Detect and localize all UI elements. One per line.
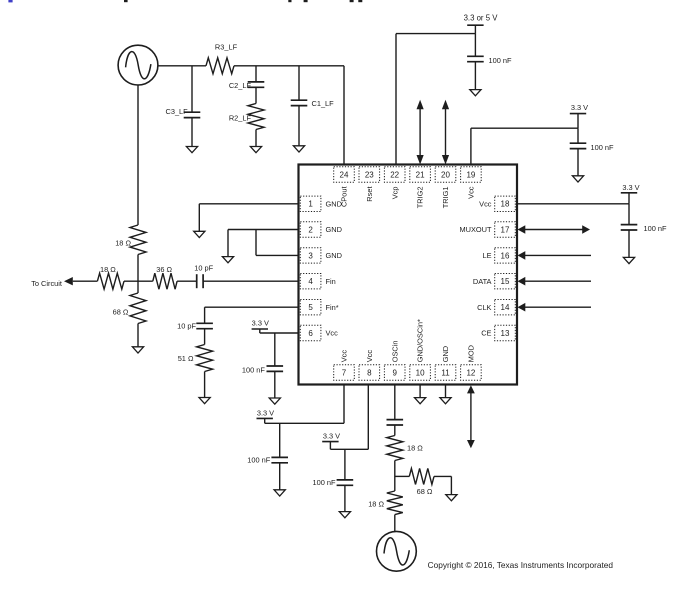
label 18 ohm R9: [407, 444, 423, 453]
pin 4 box: [300, 274, 321, 289]
ground of C10: [339, 512, 350, 518]
svg-text:C3_LF: C3_LF: [166, 107, 189, 116]
resistor R5 18 ohm: [97, 273, 124, 289]
pin 21 name TRIG2: [416, 187, 425, 209]
ground of C5: [572, 176, 583, 182]
svg-text:18 Ω: 18 Ω: [407, 444, 423, 453]
svg-text:1: 1: [308, 200, 313, 209]
ground of pin 1: [194, 231, 205, 237]
pin 18 name Vcc: [479, 199, 492, 208]
pin 19 name Vcc: [467, 186, 476, 199]
wire C10 stem: [344, 449, 346, 480]
svg-text:36 Ω: 36 Ω: [156, 265, 172, 274]
arrow MOD pin 12: [467, 385, 475, 448]
svg-text:Rset: Rset: [365, 187, 374, 202]
svg-text:18 Ω: 18 Ω: [115, 238, 131, 247]
ground of pin 2: [222, 257, 233, 263]
svg-text:68 Ω: 68 Ω: [113, 308, 129, 317]
svg-text:12: 12: [466, 368, 475, 377]
svg-text:3.3 V: 3.3 V: [622, 183, 639, 192]
svg-text:18: 18: [501, 200, 510, 209]
svg-text:DATA: DATA: [473, 277, 492, 286]
label 18 ohm R4: [115, 238, 131, 247]
svg-text:14: 14: [501, 303, 510, 312]
svg-text:15: 15: [501, 277, 510, 286]
pin 20 box: [435, 167, 456, 182]
svg-text:C1_LF: C1_LF: [312, 99, 335, 108]
svg-text:3.3 V: 3.3 V: [252, 318, 269, 327]
pin 4 name Fin: [326, 277, 336, 286]
pin 6 box: [300, 325, 321, 340]
svg-text:Vcp: Vcp: [390, 187, 399, 200]
svg-text:3.3 V: 3.3 V: [257, 409, 274, 418]
svg-text:51 Ω: 51 Ω: [178, 354, 194, 363]
label 68 ohm R10: [417, 487, 433, 496]
svg-text:10 pF: 10 pF: [194, 264, 213, 273]
pin 23 box: [359, 167, 380, 182]
svg-text:OSCin: OSCin: [390, 341, 399, 363]
pin 1 box: [300, 196, 321, 211]
wire C2_LF stem: [255, 66, 257, 82]
label 100 nF C10: [312, 478, 335, 487]
svg-text:3: 3: [308, 251, 313, 260]
wire pin 19 Vcc right: [471, 127, 578, 129]
pin 11 name GND: [441, 346, 450, 362]
ground of R10: [446, 495, 457, 501]
resistor R7 68 ohm: [130, 281, 146, 323]
capacitor C4 100 nF: [467, 56, 484, 61]
pin 5 name Fin*: [326, 303, 339, 312]
signal source V1 (VCO): [118, 45, 158, 85]
capacitor C10 100 nF: [337, 480, 354, 485]
svg-text:21: 21: [416, 170, 425, 179]
svg-text:GND: GND: [326, 225, 342, 234]
svg-text:TRIG2: TRIG2: [416, 187, 425, 209]
svg-text:GND: GND: [326, 251, 342, 260]
svg-text:Vcc: Vcc: [340, 350, 349, 363]
pin 15 name DATA: [473, 277, 492, 286]
pin 16 name LE: [482, 251, 491, 260]
pin 2 box: [300, 222, 321, 237]
capacitor C6 10 pF: [197, 274, 203, 288]
pin 15 box: [495, 274, 516, 289]
label 10 pF C7: [177, 321, 196, 330]
ground of R8: [199, 398, 210, 404]
wire Vcp supply stub: [474, 25, 476, 33]
wire C1_LF stem: [298, 66, 300, 100]
svg-text:LE: LE: [482, 251, 491, 260]
label R3_LF: [215, 43, 238, 52]
svg-text:100 nF: 100 nF: [489, 56, 512, 65]
svg-text:13: 13: [501, 329, 510, 338]
pin 21 box: [410, 167, 431, 182]
label R2_LF: [229, 114, 252, 123]
ground of pin 10: [415, 398, 426, 404]
arrow MUXOUT pin 17: [518, 225, 591, 234]
wire pin 1 GND: [199, 204, 298, 232]
wire rail to pin19 node: [577, 114, 579, 129]
wire pin 18 Vcc: [517, 203, 629, 205]
pin 17 box: [495, 222, 516, 237]
label 100 nF C5: [591, 143, 614, 152]
svg-text:CLK: CLK: [477, 303, 491, 312]
capacitor C1_LF: [291, 100, 308, 105]
pin 7 name Vcc: [340, 350, 349, 363]
wire R9 to junction: [394, 461, 396, 492]
label C1_LF: [312, 99, 335, 108]
svg-text:R3_LF: R3_LF: [215, 43, 238, 52]
pin 22 name Vcp: [390, 187, 399, 200]
capacitor C5 100 nF: [570, 143, 587, 148]
wire pin 10 GND: [419, 385, 421, 398]
pin 13 name CE: [481, 329, 491, 338]
svg-text:Vcc: Vcc: [326, 329, 339, 338]
capacitor C3_LF: [184, 112, 201, 117]
wire C5 stem: [577, 128, 579, 143]
capacitor C9 100 nF: [271, 457, 288, 462]
wire C5 to ground: [577, 149, 579, 176]
label 100 nF C9: [247, 456, 270, 465]
supply rail 3.3 V (pin 18): [621, 183, 640, 193]
svg-text:10 pF: 10 pF: [177, 321, 196, 330]
pin 23 name Rset: [365, 187, 374, 202]
wire pin 2 GND: [228, 230, 299, 257]
wire arrow to R5: [73, 280, 98, 282]
caption fragment (clipped figure title): [8, 0, 362, 2]
wire C3_LF stem: [191, 66, 193, 112]
wire C9 stem: [279, 423, 281, 457]
supply rail 3.3 or 5 V: [464, 13, 499, 25]
wire C10 to ground: [344, 485, 346, 511]
wire C4 to ground: [474, 62, 476, 90]
wire rail stub pin 7: [264, 418, 266, 423]
wire R2_LF to ground: [255, 130, 257, 147]
pin 8 box: [359, 365, 380, 380]
svg-text:C2_LF: C2_LF: [229, 81, 252, 90]
svg-text:22: 22: [390, 170, 399, 179]
wire R10 to ground: [434, 476, 451, 494]
label 100 nF C8: [242, 365, 265, 374]
wire rail stub pin 18: [628, 193, 630, 204]
wire C2_LF to R2_LF: [255, 87, 257, 103]
arrow CLK pin 14: [518, 303, 592, 312]
svg-text:11: 11: [441, 368, 450, 377]
label C2_LF: [229, 81, 252, 90]
wire C8 to ground: [274, 371, 276, 398]
pin 24 name CPout: [340, 187, 349, 208]
svg-text:10: 10: [416, 368, 425, 377]
pin 19 box: [461, 167, 482, 182]
capacitor C8 100 nF: [267, 366, 284, 371]
svg-text:Vcc: Vcc: [479, 199, 492, 208]
svg-text:GND: GND: [441, 346, 450, 362]
svg-text:Vcc: Vcc: [467, 186, 476, 199]
wire Vcp supply horizontal: [396, 33, 475, 35]
supply rail 3.3 V (pin 7): [257, 409, 275, 419]
svg-text:7: 7: [342, 368, 347, 377]
svg-text:18 Ω: 18 Ω: [368, 500, 384, 509]
svg-text:9: 9: [392, 368, 397, 377]
resistor R2_LF: [248, 104, 264, 130]
svg-text:TRIG1: TRIG1: [441, 187, 450, 209]
pin 24 box: [334, 167, 355, 182]
pin 10 name GND/OSCin*: [416, 319, 425, 362]
ground of R7: [132, 347, 143, 353]
pin 10 box: [410, 365, 431, 380]
wire C6 to pin 4 Fin: [203, 280, 298, 282]
svg-text:CE: CE: [481, 329, 491, 338]
ground of C8: [269, 398, 280, 404]
wire pin 7 Vcc: [265, 385, 344, 424]
svg-text:3.3 V: 3.3 V: [323, 432, 340, 441]
resistor R8 51 ohm: [197, 345, 213, 372]
wire R6 to C6: [177, 280, 197, 282]
label 100 nF C12: [644, 224, 667, 233]
pin 3 name GND: [326, 251, 342, 260]
pin 14 box: [495, 300, 516, 315]
supply rail 3.3 V (pin 8): [322, 432, 340, 442]
wire R3_LF to CPout node: [234, 65, 344, 67]
wire pin 11 GND: [445, 385, 447, 398]
wire rail stub pin 8: [329, 442, 331, 450]
wire rail to pin 6 Vcc: [260, 329, 299, 333]
arrow DATA pin 15: [518, 277, 592, 286]
supply rail 3.3 V (pin 19): [570, 103, 588, 114]
wire C9 to ground: [279, 463, 281, 490]
wire C8 stem: [274, 333, 276, 366]
label 51 ohm R8: [178, 354, 194, 363]
label 10 pF C6: [194, 264, 213, 273]
wire pin 9 OSCin: [394, 385, 396, 420]
pin 9 name OSCin: [390, 341, 399, 363]
capacitor C11 dc block: [387, 420, 404, 425]
pin 16 box: [495, 248, 516, 263]
pin 1 name GND: [326, 199, 342, 208]
pin 17 name MUXOUT: [459, 225, 492, 234]
wire R11 to V2: [394, 515, 396, 532]
svg-text:3.3 or 5 V: 3.3 or 5 V: [464, 13, 499, 22]
svg-text:2: 2: [308, 225, 313, 234]
wire C4 stem: [474, 34, 476, 57]
wire R5 to R6: [124, 280, 153, 282]
svg-text:MOD: MOD: [467, 345, 476, 362]
svg-text:3.3 V: 3.3 V: [571, 103, 588, 112]
label 18 ohm R11: [368, 500, 384, 509]
svg-text:16: 16: [501, 251, 510, 260]
pin 12 box: [461, 365, 482, 380]
resistor R11 18 ohm: [387, 491, 403, 515]
svg-text:Copyright © 2016, Texas Instru: Copyright © 2016, Texas Instruments Inco…: [428, 560, 614, 570]
wire down to pin 22 Vcp: [395, 34, 397, 165]
capacitor C12 100 nF: [621, 225, 638, 230]
pin 20 name TRIG1: [441, 187, 450, 209]
wire pin 5 Fin*: [205, 307, 299, 323]
copyright note: [428, 560, 614, 570]
pin 9 box: [384, 365, 405, 380]
svg-text:100 nF: 100 nF: [591, 143, 614, 152]
pin 13 box: [495, 325, 516, 340]
pin 22 box: [384, 167, 405, 182]
ground of C1_LF: [293, 146, 304, 152]
supply rail 3.3 V (pin 6): [252, 318, 269, 329]
svg-text:18 Ω: 18 Ω: [100, 265, 116, 274]
svg-text:19: 19: [466, 170, 475, 179]
wire down to pin 24 CPout: [343, 66, 345, 165]
svg-text:100 nF: 100 nF: [644, 224, 667, 233]
pin 2 name GND: [326, 225, 342, 234]
label 18 ohm R5: [100, 265, 116, 274]
svg-text:Fin*: Fin*: [326, 303, 339, 312]
resistor R3_LF: [206, 58, 234, 74]
wire C11 to R9: [394, 425, 396, 436]
ground of C3_LF: [186, 147, 197, 153]
pin 18 box: [495, 196, 516, 211]
label C3_LF: [166, 107, 189, 116]
svg-text:23: 23: [365, 170, 374, 179]
ground of R2_LF: [250, 147, 261, 153]
svg-text:24: 24: [340, 170, 349, 179]
wire pin 19 Vcc up: [470, 128, 472, 164]
wire R4 to node: [137, 255, 139, 282]
label To Circuit: [31, 279, 62, 288]
ground of C9: [274, 490, 285, 496]
svg-text:5: 5: [308, 303, 313, 312]
wire C3_LF to ground: [191, 118, 193, 147]
capacitor C2_LF: [248, 82, 265, 87]
ground of pin 11: [440, 398, 451, 404]
svg-text:4: 4: [308, 277, 313, 286]
wire pin 3 GND: [256, 230, 299, 256]
pin 12 name MOD: [467, 345, 476, 362]
svg-text:GND: GND: [326, 199, 342, 208]
arrow TRIG1 pin 20: [442, 100, 449, 165]
arrow TRIG2 pin 21: [417, 100, 424, 165]
wire junction to R10: [395, 475, 410, 477]
resistor R10 68 ohm: [409, 468, 434, 484]
label 36 ohm R6: [156, 265, 172, 274]
svg-text:Vcc: Vcc: [365, 350, 374, 363]
resistor R6 36 ohm: [153, 273, 177, 289]
wire R7 to ground: [137, 324, 139, 347]
pin 5 box: [300, 300, 321, 315]
svg-text:6: 6: [308, 329, 313, 338]
pin 7 box: [334, 365, 355, 380]
pin 3 box: [300, 248, 321, 263]
svg-text:8: 8: [367, 368, 372, 377]
ground of C4: [470, 90, 481, 96]
svg-text:100 nF: 100 nF: [312, 478, 335, 487]
wire C12 to ground: [628, 230, 630, 257]
pin 8 name Vcc: [365, 350, 374, 363]
arrow LE pin 16: [518, 251, 592, 260]
svg-text:Fin: Fin: [326, 277, 336, 286]
IC U1 body: [299, 165, 518, 385]
resistor R9 18 ohm: [387, 436, 403, 461]
ground of C12: [623, 257, 634, 263]
svg-text:68 Ω: 68 Ω: [417, 487, 433, 496]
pin 11 box: [435, 365, 456, 380]
wire R8 to ground: [204, 372, 206, 398]
pin 14 name CLK: [477, 303, 491, 312]
capacitor C7 10 pF: [196, 323, 213, 328]
svg-text:To Circuit: To Circuit: [31, 279, 62, 288]
svg-text:R2_LF: R2_LF: [229, 114, 252, 123]
svg-text:MUXOUT: MUXOUT: [459, 225, 492, 234]
wire C12 stem: [628, 204, 630, 225]
wire V1 to RF attenuator: [137, 85, 139, 225]
label 68 ohm R7: [113, 308, 129, 317]
resistor R4 18 ohm: [130, 225, 146, 255]
svg-text:20: 20: [441, 170, 450, 179]
svg-text:17: 17: [501, 225, 510, 234]
svg-text:100 nF: 100 nF: [242, 365, 265, 374]
signal source V2 (reference): [377, 531, 417, 571]
arrow to circuit: [64, 277, 73, 285]
pin 6 name Vcc: [326, 329, 339, 338]
wire pin 8 Vcc: [330, 385, 368, 450]
wire C7 to R8: [204, 329, 206, 345]
svg-text:100 nF: 100 nF: [247, 456, 270, 465]
wire V1 to R3_LF: [158, 65, 207, 67]
svg-text:GND/OSCin*: GND/OSCin*: [416, 319, 425, 362]
label 100 nF C4: [489, 56, 512, 65]
wire C1_LF to ground: [298, 106, 300, 146]
